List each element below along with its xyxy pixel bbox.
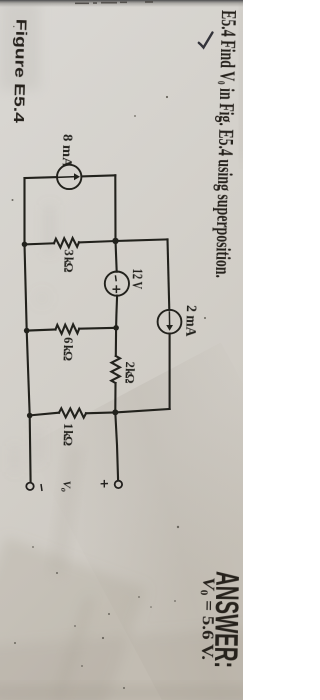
svg-text:1 kΩ: 1 kΩ [61,423,76,446]
wire rail 3 left lead [27,330,56,331]
node rail3-middle [113,325,119,331]
svg-text:3 kΩ: 3 kΩ [61,249,76,272]
svg-text:12 V: 12 V [128,268,145,289]
svg-text:Figure E5.4: Figure E5.4 [10,19,30,124]
svg-text:2 kΩ: 2 kΩ [122,361,137,383]
output terminal plus (open circle) [115,481,122,488]
wire right vertical lower [169,334,171,409]
paper background [0,0,243,700]
dust specks [12,26,207,689]
wire top (node A to node B) [25,176,58,179]
wire rail 3 right lead [79,327,116,330]
current source 8 mA [57,165,81,189]
resistor 3 kOhm [54,238,79,248]
bottom edge shading [0,686,253,700]
wire right vertical upper [168,239,170,309]
wire middle vertical mid [116,296,117,356]
node rail2-middle [112,238,118,244]
diagonal crease band lower right [27,342,320,700]
node rail4-left [27,413,33,419]
pen checkmark [199,33,213,48]
wire rail 2 (with 3k) left part [25,243,55,244]
voltage source 12 V [105,272,129,296]
wire rail 2 right part to corner [79,239,168,242]
svg-text:2 mA: 2 mA [182,305,199,337]
node rail3-left [24,328,30,334]
faint ghost show-through marks [12,205,53,472]
output terminal minus (open circle) [26,483,33,490]
label plus at output [101,480,108,488]
right page edge shading [240,0,243,160]
node junction dots [22,238,119,419]
cropped print fragments at top edge [75,1,153,4]
faint streak below circuit [49,445,83,576]
wire middle vertical lower [115,383,118,480]
wire left vertical [25,178,31,482]
top dark page edge [0,0,243,7]
minus sign inside 12 V source [114,275,117,281]
svg-text:V0 = 5.6 V.: V0 = 5.6 V. [197,577,219,660]
resistor 6 kOhm [56,324,80,333]
wire rail 4 (bottom) right part [86,409,170,413]
node rail4-middle [112,409,118,415]
arrowhead of 8 mA source [74,173,80,180]
label minus at output [41,484,42,491]
arrowhead of 2 mA source [166,325,173,331]
wire rail 4 left part [30,413,59,416]
resistor 2 kOhm (vertical) [111,356,120,383]
bottom-left soft shadow [0,537,262,700]
svg-text:6 kΩ: 6 kΩ [61,337,76,361]
resistor 1 kOhm [59,408,86,417]
plus sign inside 12 V source [113,275,121,293]
svg-text:8 mA: 8 mA [59,134,75,169]
current source 2 mA [158,310,182,334]
wire middle vertical upper [115,175,116,271]
node rail2-left [22,242,28,248]
